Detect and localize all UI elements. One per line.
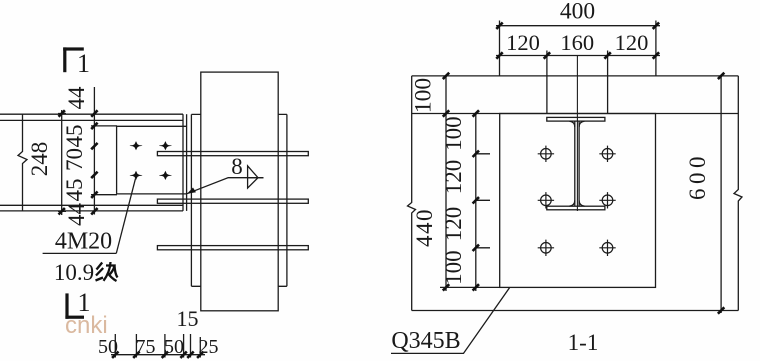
svg-text:Q345B: Q345B	[391, 328, 460, 354]
bolt B2	[159, 141, 171, 150]
anchor bolt A1	[538, 146, 554, 162]
column shaft	[201, 72, 278, 311]
svg-text:120: 120	[441, 207, 466, 242]
dim 248 line	[58, 110, 66, 215]
anchor bolt A5	[538, 240, 554, 256]
through rod 3	[157, 246, 308, 250]
bottom dim chain	[111, 354, 205, 356]
bolt B1	[130, 141, 142, 150]
section mark top (1)	[63, 47, 84, 72]
svg-text:400: 400	[560, 0, 595, 25]
svg-text:44: 44	[64, 86, 89, 110]
chain ticks	[91, 110, 97, 214]
svg-text:45: 45	[62, 125, 87, 148]
svg-text:10.9: 10.9	[54, 260, 94, 285]
glyph ji (grade)	[96, 262, 118, 281]
svg-text:44: 44	[64, 203, 89, 227]
svg-text:75: 75	[136, 336, 156, 358]
band line	[412, 113, 739, 115]
connection plate face	[117, 126, 187, 194]
weld leader arrow	[187, 178, 264, 194]
bottom chain extension stubs	[115, 334, 200, 358]
anchor bolt A2	[599, 146, 615, 162]
svg-text:70: 70	[62, 148, 87, 171]
dim2 ticks	[496, 52, 659, 58]
bolt B3	[130, 171, 142, 180]
svg-text:8: 8	[231, 154, 243, 179]
svg-text:100: 100	[441, 116, 466, 151]
svg-text:160: 160	[560, 30, 594, 55]
svg-text:1: 1	[77, 49, 90, 78]
bottom chain ticks	[112, 352, 203, 358]
column side plates	[191, 114, 287, 286]
svg-text:4M20: 4M20	[55, 229, 112, 255]
outer right edge with break	[734, 76, 742, 311]
svg-text:120: 120	[615, 30, 649, 55]
I-beam fillets bottom	[569, 200, 584, 206]
chain dim line right view	[475, 114, 477, 292]
beam top flange	[0, 114, 183, 120]
bolt column extensions	[547, 51, 608, 114]
dim 600 ticks	[718, 73, 724, 314]
end plate edge	[186, 114, 188, 211]
chain extension plate top	[91, 125, 117, 127]
anchor bolt A3	[538, 192, 554, 208]
label Q345B leader	[391, 288, 510, 354]
svg-text:45: 45	[62, 179, 87, 202]
weld symbol triangle	[248, 166, 264, 188]
chain dim line left	[93, 87, 95, 215]
dim 120/160/120 line	[496, 55, 660, 57]
svg-text:100: 100	[411, 78, 437, 113]
chain extension plate bottom	[91, 194, 117, 196]
through rod 2	[157, 199, 308, 203]
center line	[576, 56, 578, 212]
svg-text:120: 120	[506, 30, 540, 55]
dim 100/440 ticks	[443, 73, 449, 291]
dim 100/440 line	[445, 76, 447, 291]
I-beam web	[575, 121, 579, 206]
svg-text:600: 600	[685, 152, 710, 200]
svg-text:440: 440	[412, 208, 437, 247]
dim 248 ticks	[59, 110, 65, 214]
svg-text:25: 25	[199, 336, 219, 358]
through rod 1	[157, 152, 308, 156]
anchor bolt A6	[599, 240, 615, 256]
dim 600 line	[720, 75, 722, 314]
I-beam top flange	[547, 117, 605, 121]
chain row extensions	[440, 154, 500, 288]
outer face rect	[412, 76, 739, 311]
label 4M20 leader	[116, 179, 135, 254]
svg-text:248: 248	[27, 142, 52, 177]
beam end line	[182, 114, 184, 211]
dim 400 extensions	[500, 21, 656, 76]
beam break line	[18, 114, 27, 212]
svg-text:120: 120	[441, 160, 466, 195]
svg-text:50: 50	[164, 336, 184, 358]
beam bottom flange	[0, 205, 183, 211]
embedded plate	[500, 114, 656, 288]
dim 400 line	[496, 25, 660, 27]
svg-text:100: 100	[441, 250, 466, 285]
svg-text:1-1: 1-1	[568, 330, 599, 355]
svg-text:cnki: cnki	[65, 312, 108, 339]
anchor bolt A4	[599, 192, 615, 208]
I-beam fillets top	[569, 121, 584, 127]
I-beam bottom flange	[547, 206, 605, 210]
label 4M20 underline	[43, 252, 117, 254]
bolt B4	[159, 171, 171, 180]
chain ticks right	[473, 110, 479, 290]
section mark bottom (1)	[65, 293, 84, 318]
dim 400 ticks	[496, 23, 659, 29]
svg-text:15: 15	[177, 306, 199, 331]
svg-text:50: 50	[98, 336, 118, 358]
outer left edge with break	[408, 76, 416, 311]
